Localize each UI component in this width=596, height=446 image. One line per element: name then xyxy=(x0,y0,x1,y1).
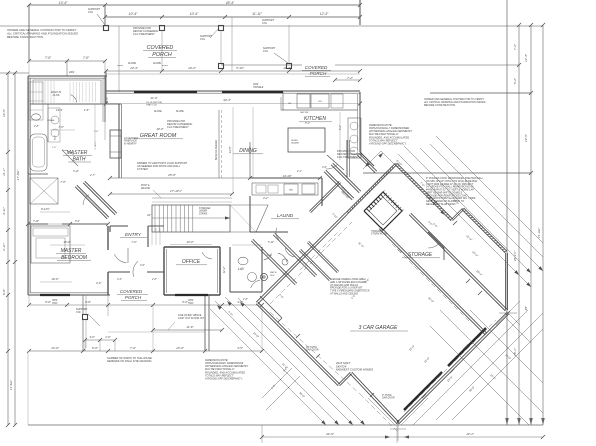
svg-text:16′-0″: 16′-0″ xyxy=(63,240,71,244)
svg-text:SLOPE: SLOPE xyxy=(154,111,162,113)
svg-text:BEFORE CONSTRUCTION.: BEFORE CONSTRUCTION. xyxy=(424,104,456,107)
svg-text:0-CLEARANT: 0-CLEARANT xyxy=(124,137,139,140)
svg-text:MIDWEST CUSTOM HOMES: MIDWEST CUSTOM HOMES xyxy=(336,368,373,372)
svg-text:10′-4″: 10′-4″ xyxy=(129,12,138,16)
svg-text:19′-0″: 19′-0″ xyxy=(156,127,164,131)
svg-text:DINING: DINING xyxy=(239,148,257,154)
svg-text:5′-11″: 5′-11″ xyxy=(268,241,274,244)
svg-text:STORM ROOM: STORM ROOM xyxy=(371,234,387,236)
svg-text:SLOPE: SLOPE xyxy=(128,62,136,65)
svg-text:SYSTEM: SYSTEM xyxy=(137,167,149,171)
svg-text:21′-0″: 21′-0″ xyxy=(149,96,158,100)
svg-text:STAIRS: STAIRS xyxy=(199,212,208,215)
svg-text:BATH: BATH xyxy=(73,157,86,163)
svg-text:7′-2″: 7′-2″ xyxy=(347,76,354,80)
svg-text:10′-4″: 10′-4″ xyxy=(130,66,139,70)
svg-text:13′-0″: 13′-0″ xyxy=(51,346,60,350)
svg-text:8′-0″: 8′-0″ xyxy=(92,346,99,350)
svg-text:8′-11½″: 8′-11½″ xyxy=(41,207,51,211)
svg-text:45°: 45° xyxy=(524,305,528,310)
svg-text:2′-8″: 2′-8″ xyxy=(151,278,157,281)
svg-text:25′-1½″: 25′-1½″ xyxy=(513,250,517,262)
svg-text:13′-4″: 13′-4″ xyxy=(59,1,68,5)
svg-text:UNDER: UNDER xyxy=(199,211,208,213)
svg-text:4′-1″: 4′-1″ xyxy=(297,170,302,173)
svg-text:16″ OVHG: 16″ OVHG xyxy=(306,347,317,349)
svg-text:3′-11″: 3′-11″ xyxy=(2,206,6,215)
svg-text:13′-0″: 13′-0″ xyxy=(176,346,185,350)
svg-text:8″ OVHG: 8″ OVHG xyxy=(382,395,392,397)
svg-text:CLG TREATMENT: CLG TREATMENT xyxy=(133,32,155,36)
svg-text:7′-0″: 7′-0″ xyxy=(130,346,137,350)
svg-text:KITCHEN: KITCHEN xyxy=(304,116,326,122)
svg-text:COL: COL xyxy=(200,38,206,41)
svg-text:TWN: TWN xyxy=(188,303,194,305)
svg-text:3′-0″: 3′-0″ xyxy=(322,166,327,169)
svg-text:12′-3″: 12′-3″ xyxy=(320,12,329,16)
svg-text:BEFORE CONSTRUCTION.: BEFORE CONSTRUCTION. xyxy=(7,35,44,39)
svg-text:17′-8¾″: 17′-8¾″ xyxy=(16,169,20,180)
svg-text:GREAT ROOM: GREAT ROOM xyxy=(140,133,177,139)
svg-text:14′-5″: 14′-5″ xyxy=(524,133,528,142)
svg-text:25′-8″: 25′-8″ xyxy=(167,173,177,177)
svg-text:11′-6¾″: 11′-6¾″ xyxy=(9,379,13,390)
svg-text:GAR DOOR: GAR DOOR xyxy=(382,397,395,400)
svg-text:10′-0″: 10′-0″ xyxy=(51,277,59,281)
svg-text:LAUND: LAUND xyxy=(277,213,294,219)
svg-text:5′-1″: 5′-1″ xyxy=(305,122,310,125)
svg-text:W.H.: W.H. xyxy=(270,275,275,277)
svg-text:14′-10″: 14′-10″ xyxy=(283,174,293,178)
svg-text:2′-8″: 2′-8″ xyxy=(33,125,39,128)
svg-text:7′-2″: 7′-2″ xyxy=(513,43,517,50)
svg-text:CANT OUT FLOOR JST: CANT OUT FLOOR JST xyxy=(178,317,205,320)
svg-text:3040: 3040 xyxy=(253,83,259,86)
svg-text:STORAGE: STORAGE xyxy=(199,207,211,210)
svg-text:STORAGE: STORAGE xyxy=(408,252,433,258)
svg-text:COL: COL xyxy=(263,50,269,53)
svg-text:COVERED: COVERED xyxy=(305,65,328,70)
svg-text:2060: 2060 xyxy=(68,72,75,74)
svg-text:2′-6″: 2′-6″ xyxy=(104,335,111,339)
svg-text:19′-1″: 19′-1″ xyxy=(466,432,475,436)
svg-text:5′-2″: 5′-2″ xyxy=(339,125,342,130)
svg-text:43′-4″: 43′-4″ xyxy=(223,98,232,102)
svg-text:W/D: W/D xyxy=(289,190,294,192)
svg-text:11′-11″: 11′-11″ xyxy=(252,12,263,16)
svg-text:8′-6″: 8′-6″ xyxy=(45,300,52,304)
svg-text:ISLAND: ISLAND xyxy=(291,142,299,145)
svg-text:3′-5″: 3′-5″ xyxy=(237,346,244,350)
svg-text:5′-0″: 5′-0″ xyxy=(75,220,80,223)
svg-text:COL: COL xyxy=(262,22,268,25)
svg-text:3050: 3050 xyxy=(188,300,194,302)
svg-text:3 CAR GARAGE: 3 CAR GARAGE xyxy=(359,325,398,331)
svg-text:IN HEARTH: IN HEARTH xyxy=(124,142,137,145)
svg-text:2′-0″: 2′-0″ xyxy=(93,131,99,133)
svg-text:1′-8″: 1′-8″ xyxy=(84,108,89,112)
svg-text:SLOPE: SLOPE xyxy=(176,111,184,113)
svg-text:8′-6″: 8′-6″ xyxy=(85,300,92,304)
svg-text:71′-9¾″: 71′-9¾″ xyxy=(537,227,541,238)
svg-text:PORCH: PORCH xyxy=(125,295,142,300)
svg-text:4′-1″: 4′-1″ xyxy=(94,141,97,146)
svg-text:3′-0″: 3′-0″ xyxy=(140,264,145,267)
svg-text:SEAL/PITCH SLAB DRAIN: SEAL/PITCH SLAB DRAIN xyxy=(426,203,456,206)
svg-text:7′-0″: 7′-0″ xyxy=(83,56,90,60)
svg-text:24′-9″: 24′-9″ xyxy=(325,432,335,436)
svg-text:CLG TREATMENT: CLG TREATMENT xyxy=(167,125,189,129)
svg-text:MECH: MECH xyxy=(270,272,277,274)
svg-text:MASTER: MASTER xyxy=(61,248,82,254)
svg-text:7′-10″: 7′-10″ xyxy=(33,220,39,223)
svg-text:13′-0″: 13′-0″ xyxy=(186,240,194,244)
svg-text:12′-4″: 12′-4″ xyxy=(524,53,528,62)
svg-text:12′-2″: 12′-2″ xyxy=(222,266,226,274)
svg-text:OFFICE: OFFICE xyxy=(182,259,201,265)
svg-text:TWN: TWN xyxy=(52,303,58,305)
svg-text:2′-8″: 2′-8″ xyxy=(242,298,248,301)
svg-text:A ROUND-OFF DISCREPANCY.: A ROUND-OFF DISCREPANCY. xyxy=(368,141,407,145)
svg-text:GMP DW: GMP DW xyxy=(300,112,309,114)
svg-text:11′-1″: 11′-1″ xyxy=(2,167,6,176)
svg-text:11′-6″: 11′-6″ xyxy=(186,325,194,329)
svg-text:14′-8″: 14′-8″ xyxy=(228,146,232,154)
svg-text:5′-2″: 5′-2″ xyxy=(513,77,517,84)
svg-text:3′-11″: 3′-11″ xyxy=(73,170,79,173)
svg-text:13′-4″: 13′-4″ xyxy=(56,108,63,112)
svg-text:RAILING: RAILING xyxy=(141,187,150,190)
svg-text:10′-4″: 10′-4″ xyxy=(188,66,197,70)
svg-text:MASTER: MASTER xyxy=(67,150,88,156)
svg-text:6′-0″: 6′-0″ xyxy=(2,288,6,295)
svg-text:5′-10″: 5′-10″ xyxy=(236,66,245,70)
svg-text:COVERED: COVERED xyxy=(120,289,143,294)
svg-text:2′-11″: 2′-11″ xyxy=(2,242,6,252)
svg-text:TORNADO/: TORNADO/ xyxy=(371,230,383,233)
svg-text:COL: COL xyxy=(76,311,82,314)
svg-text:TWINDLE: TWINDLE xyxy=(253,87,264,89)
svg-text:18′-1″: 18′-1″ xyxy=(513,347,517,356)
svg-text:3050: 3050 xyxy=(52,300,58,302)
svg-text:TRAY CLG: TRAY CLG xyxy=(146,104,157,107)
svg-text:2′-7″: 2′-7″ xyxy=(89,174,95,177)
svg-text:10′-4″: 10′-4″ xyxy=(190,12,199,16)
svg-text:FIREPLACE: FIREPLACE xyxy=(124,140,137,143)
svg-text:14′-5″: 14′-5″ xyxy=(2,108,6,117)
svg-text:1′-2″: 1′-2″ xyxy=(52,147,57,149)
svg-text:RG: RG xyxy=(318,101,322,103)
svg-text:LAV: LAV xyxy=(238,267,245,271)
svg-text:BEAM AS NEEDED: BEAM AS NEEDED xyxy=(215,139,218,160)
svg-text:5′-1″: 5′-1″ xyxy=(54,135,57,140)
svg-text:A ROUND-OFF DISCREPANCY.: A ROUND-OFF DISCREPANCY. xyxy=(204,376,243,380)
svg-text:CLOS: CLOS xyxy=(53,94,60,97)
svg-text:COVERED: COVERED xyxy=(147,45,174,51)
svg-text:PORCH: PORCH xyxy=(310,71,327,76)
svg-text:POST &: POST & xyxy=(141,185,150,187)
svg-text:DEPENDS ON FINAL SITE GRADING: DEPENDS ON FINAL SITE GRADING xyxy=(107,359,152,363)
svg-text:ENTRY: ENTRY xyxy=(125,232,142,238)
svg-text:7′-0″: 7′-0″ xyxy=(45,56,52,60)
svg-text:UP: UP xyxy=(147,214,151,217)
svg-text:BEDROOM: BEDROOM xyxy=(61,255,88,261)
svg-text:3′-4″: 3′-4″ xyxy=(117,278,122,281)
svg-text:45′-4″: 45′-4″ xyxy=(226,1,235,5)
svg-text:GAR DOOR: GAR DOOR xyxy=(306,349,319,352)
svg-text:11′-4″: 11′-4″ xyxy=(283,66,291,70)
svg-text:SLOPE: SLOPE xyxy=(153,62,161,65)
svg-text:COL: COL xyxy=(88,11,94,14)
svg-text:17′-11½″: 17′-11½″ xyxy=(170,189,183,193)
